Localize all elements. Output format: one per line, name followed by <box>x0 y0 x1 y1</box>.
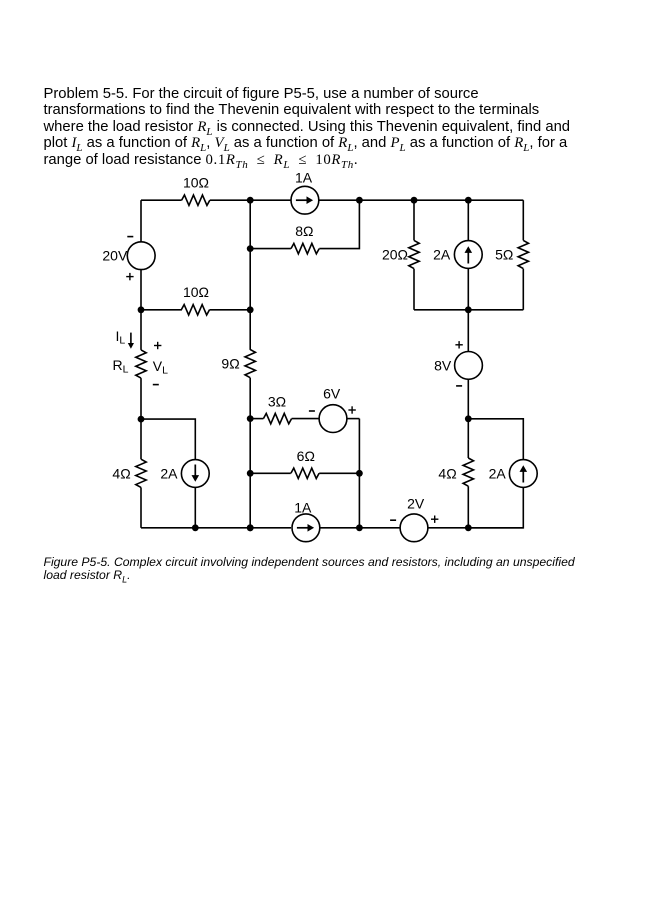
wire: right rail from parallel section to 8V source <box>467 310 469 352</box>
node: middle rail at 8Ω branch <box>247 245 254 252</box>
wire: left rail, 20V source to 10Ω junction <box>140 270 142 310</box>
wire: second 10Ω branch right segment <box>210 309 251 311</box>
polarity minus of V2 6V <box>309 410 315 412</box>
current source I5 arrow up <box>520 465 528 482</box>
svg-text:10Ω: 10Ω <box>183 284 209 300</box>
wire: 5Ω branch lower segment <box>522 269 524 310</box>
wire: middle rail from 9Ω to bottom rail <box>249 378 251 528</box>
resistor R3 10Ω (middle) <box>181 305 209 315</box>
node: middle rail at second 10Ω branch <box>247 306 254 313</box>
resistor RL (load resistor) <box>136 350 146 378</box>
resistor R5 4Ω (bottom left) <box>136 459 146 487</box>
wire: 8Ω branch right segment up to top rail <box>319 200 359 248</box>
wire: 4Ω right branch upper segment <box>467 419 469 458</box>
current source I3 1A circle (bottom) <box>292 514 320 542</box>
svg-text:10Ω: 10Ω <box>183 175 209 191</box>
wire: 3Ω to 6V source <box>292 418 320 420</box>
current source I2 2A circle (down, bottom left) <box>181 460 209 488</box>
wire: 2A top-right branch lower segment <box>467 268 469 309</box>
svg-text:1A: 1A <box>294 499 312 515</box>
wire: left rail down to RL <box>140 310 142 350</box>
wire: second 10Ω branch left segment <box>141 309 182 311</box>
svg-text:6Ω: 6Ω <box>297 448 315 464</box>
resistor R7 6Ω <box>291 468 319 478</box>
wire: bottom rail, 2V source to right junction <box>428 527 468 529</box>
node: top of 2A branch <box>465 197 472 204</box>
wire: branch from left rail to 2A down source <box>141 419 195 460</box>
wire: left rail down to 4Ω <box>140 419 142 459</box>
resistor R9 5Ω <box>518 240 528 268</box>
wire: 20Ω branch lower segment <box>413 269 415 310</box>
node: top of 20Ω branch <box>411 197 418 204</box>
node: middle rail at 6Ω branch <box>247 470 254 477</box>
wire: branch right to 2A up source bottom-right <box>468 419 523 460</box>
node: bottom rail at middle rail <box>247 524 254 531</box>
svg-text:8Ω: 8Ω <box>295 223 313 239</box>
svg-text:6V: 6V <box>323 385 341 401</box>
node: middle rail at bottom rail <box>247 524 254 531</box>
wire: 20Ω branch upper segment <box>413 200 415 240</box>
node: bottom rail at inner right rail <box>356 524 363 531</box>
node: left rail at second 10Ω branch <box>138 306 145 313</box>
node: junction top of middle rail <box>247 197 254 204</box>
polarity plus of V4 <box>431 516 438 523</box>
wire: top rail, 1A source to top-right corner <box>319 199 524 201</box>
voltage source V2 6V circle <box>319 405 347 433</box>
current source I1 arrow <box>296 196 313 204</box>
node: right rail at 4Ω/2A parallel <box>465 415 472 422</box>
voltage source V4 2V circle (bottom) <box>400 514 428 542</box>
resistor R4 9Ω <box>245 350 255 378</box>
svg-text:2A: 2A <box>160 465 178 481</box>
wire: 4Ω right branch lower segment <box>467 486 469 528</box>
node: inner right rail at 6Ω branch <box>356 470 363 477</box>
current source I2 arrow down <box>192 465 200 482</box>
voltage source V1 20V circle <box>127 242 155 270</box>
polarity plus of V1 <box>126 273 133 280</box>
current source I1 1A circle (top) <box>291 186 319 214</box>
arrow: IL current direction (down) <box>128 333 134 349</box>
wire: 2A bottom-right source down to bottom rail <box>468 487 523 527</box>
svg-text:8V: 8V <box>434 357 452 373</box>
current source I3 arrow right <box>297 524 314 532</box>
current source I5 2A circle (bottom right, up) <box>509 460 537 488</box>
polarity plus of V2 <box>348 406 355 413</box>
svg-text:RL: RL <box>113 357 129 376</box>
polarity minus of V3 <box>456 385 462 387</box>
svg-text:20Ω: 20Ω <box>382 247 408 263</box>
svg-text:9Ω: 9Ω <box>221 356 239 372</box>
polarity plus of VL <box>154 342 161 349</box>
node: bottom rail at 2A branch <box>192 524 199 531</box>
wire: 3Ω branch left segment <box>250 418 263 420</box>
svg-text:VL: VL <box>153 358 168 377</box>
wire: middle rail from top to 9Ω <box>249 200 251 350</box>
current source I4 arrow up <box>465 246 473 263</box>
wire: 8V source down to right junction <box>467 379 469 419</box>
wire: 2A down source to bottom rail <box>194 487 196 527</box>
resistor R10 4Ω (bottom right) <box>463 458 473 486</box>
figure caption <box>44 556 575 583</box>
wire: 6Ω branch left segment <box>250 472 291 474</box>
voltage source V3 8V circle <box>455 352 483 380</box>
wire: 5Ω branch upper segment <box>522 200 524 240</box>
svg-text:2A: 2A <box>433 247 451 263</box>
svg-text:4Ω: 4Ω <box>112 465 130 481</box>
node: middle rail at 3Ω branch <box>247 415 254 422</box>
svg-text:3Ω: 3Ω <box>268 394 286 410</box>
svg-text:2A: 2A <box>489 465 507 481</box>
node: top of 8Ω return rail <box>356 197 363 204</box>
wire: left rail RL to lower junction <box>140 378 142 419</box>
wire: left rail, 4Ω to bottom corner <box>140 487 142 527</box>
svg-text:20V: 20V <box>102 248 128 264</box>
current source I4 2A circle (top right, up) <box>454 241 482 269</box>
wire: bottom rail left segment <box>141 527 291 529</box>
wire: left rail, top corner down to 20V source <box>140 200 142 242</box>
polarity minus of V4 2V <box>390 519 396 521</box>
svg-text:IL: IL <box>116 328 126 347</box>
wire: inner right rail from 3Ω/6V branch down to bottom rail <box>358 419 360 528</box>
wire: 2A top-right branch upper segment <box>467 200 469 240</box>
wire: 6Ω branch right segment <box>319 472 359 474</box>
problem statement text <box>44 86 571 169</box>
wire: bottom of top-right parallel section <box>414 309 523 311</box>
svg-text:2V: 2V <box>407 496 425 512</box>
node: bottom rail at 4Ω right branch <box>465 524 472 531</box>
node: left rail at 2A branch takeoff <box>138 416 145 423</box>
wire: top rail, left corner to R1 <box>141 199 182 201</box>
svg-text:4Ω: 4Ω <box>438 465 456 481</box>
polarity minus of VL <box>153 384 159 386</box>
polarity minus of V1 <box>127 236 133 238</box>
resistor R1 10Ω (top left) <box>182 195 210 205</box>
wire: top rail, R1 to 1A source <box>210 199 291 201</box>
wire: bottom rail, 1A source to 2V source <box>320 527 400 529</box>
wire: 8Ω branch left segment <box>250 248 291 250</box>
node: bottom of 2A branch top-right <box>465 306 472 313</box>
resistor R2 8Ω <box>291 243 319 253</box>
resistor R6 3Ω <box>263 413 291 423</box>
wire: 6V source to right rail <box>347 418 360 420</box>
resistor R8 20Ω <box>409 240 419 268</box>
svg-text:1A: 1A <box>295 169 313 185</box>
polarity plus of V3 8V <box>455 341 462 348</box>
svg-text:5Ω: 5Ω <box>495 247 513 263</box>
wire: bottom rail right segment <box>468 527 523 529</box>
